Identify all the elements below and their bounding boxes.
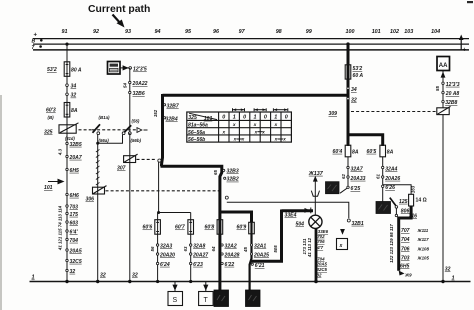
svg-text:(B1a): (B1a)	[99, 115, 111, 120]
svg-text:Current path: Current path	[88, 4, 150, 15]
svg-text:20A5: 20A5	[69, 248, 82, 254]
svg-text:704: 704	[70, 238, 79, 244]
svg-text:32: 32	[445, 267, 451, 273]
svg-text:32B6: 32B6	[133, 91, 145, 97]
svg-text:(56b): (56b)	[131, 138, 142, 143]
end arrow X9	[399, 271, 412, 278]
svg-text:93: 93	[125, 29, 131, 35]
relay contact 306	[86, 186, 107, 203]
svg-text:20A7: 20A7	[69, 155, 83, 161]
svg-text:54: 54	[122, 83, 127, 88]
svg-text:Ж9: Ж9	[404, 273, 412, 278]
current path numbers row	[62, 29, 441, 35]
node 706 X108	[401, 246, 429, 252]
svg-text:60'5: 60'5	[367, 149, 377, 155]
wire below 60'4	[340, 157, 348, 193]
svg-text:12'3'3: 12'3'3	[446, 82, 460, 88]
svg-text:x: x	[233, 138, 237, 143]
svg-text:62: 62	[341, 174, 346, 179]
ground junction switch wire	[128, 280, 131, 283]
svg-text:20A25: 20A25	[253, 252, 269, 258]
svg-text:S: S	[173, 297, 178, 304]
switch blade left	[93, 124, 101, 133]
node 32 lamp wire	[317, 272, 322, 277]
wire AA column to ground	[442, 115, 444, 282]
fuse 60'7	[175, 220, 194, 235]
node 20A8	[442, 91, 460, 97]
node 704	[317, 256, 325, 261]
node 702	[317, 234, 325, 239]
connector circle node at relay output	[158, 159, 161, 162]
svg-text:60 A: 60 A	[353, 73, 364, 79]
node 707 X111	[401, 228, 429, 234]
bus bar 15 (middle line)	[33, 43, 469, 45]
svg-text:706: 706	[401, 246, 410, 252]
node 32B8	[442, 100, 458, 106]
svg-text:41 121 115 74 113 114: 41 121 115 74 113 114	[58, 205, 63, 251]
relay contact 325	[44, 123, 79, 141]
X contact box	[337, 239, 348, 250]
svg-text:(56): (56)	[132, 119, 140, 124]
left page-edge smudge	[0, 95, 2, 310]
node 32C5	[66, 259, 82, 265]
svg-text:34: 34	[71, 84, 77, 90]
ground bus line 1	[30, 281, 471, 283]
svg-text:603: 603	[70, 220, 79, 226]
svg-text:6H6: 6H6	[70, 193, 80, 199]
svg-text:20A27: 20A27	[192, 252, 209, 258]
svg-text:32: 32	[317, 272, 322, 277]
svg-text:32B4: 32B4	[166, 117, 178, 123]
svg-text:703: 703	[401, 256, 410, 262]
node 4'7	[316, 245, 323, 250]
branch wire to resistor	[383, 185, 411, 195]
svg-text:32: 32	[71, 93, 77, 99]
tick 32B3	[223, 168, 239, 174]
svg-text:6'4': 6'4'	[70, 229, 79, 235]
svg-text:53'2: 53'2	[353, 66, 363, 72]
bus bar X (lower line)	[33, 49, 469, 51]
svg-text:704: 704	[401, 237, 410, 243]
svg-text:20A26: 20A26	[384, 176, 400, 182]
svg-text:1: 1	[233, 115, 236, 121]
svg-text:6H5: 6H5	[400, 263, 410, 269]
switch 125	[390, 198, 408, 209]
svg-text:102: 102	[390, 29, 399, 35]
thick wire to lamp from branch	[282, 209, 314, 212]
link line 56-56a	[258, 131, 263, 133]
junction split to branches 1-2	[158, 212, 191, 214]
svg-text:60'4: 60'4	[333, 149, 343, 155]
node 175	[66, 212, 78, 218]
svg-text:175: 175	[70, 212, 79, 218]
svg-text:34: 34	[351, 87, 357, 93]
link wire 56a to 56b contact	[98, 135, 123, 143]
svg-text:B: B	[32, 39, 36, 45]
switch contact node 56b-left	[122, 132, 125, 135]
node 32	[66, 269, 76, 275]
svg-text:63: 63	[183, 246, 188, 251]
svg-text:32: 32	[351, 97, 357, 103]
svg-text:60'8: 60'8	[205, 225, 215, 231]
svg-text:Ж117: Ж117	[417, 237, 430, 242]
svg-text:32B5: 32B5	[70, 142, 82, 148]
ground box dark 2	[246, 290, 261, 307]
table x marks row 81a-56a	[232, 123, 278, 128]
long thin wire to lamp and 32B1	[227, 202, 349, 218]
wire lamp vertical	[314, 182, 316, 216]
svg-text:32A3: 32A3	[160, 243, 172, 249]
svg-text:(56a): (56a)	[99, 138, 110, 143]
svg-text:32: 32	[132, 273, 138, 279]
node 20A27	[190, 252, 210, 258]
svg-text:32A2: 32A2	[225, 243, 237, 249]
svg-text:AA: AA	[439, 63, 448, 69]
fuse S 53'2 60A right	[345, 65, 363, 79]
svg-text:x: x	[253, 123, 257, 128]
branch2 wire	[190, 213, 192, 282]
svg-text:53'2: 53'2	[47, 67, 57, 73]
svg-text:325: 325	[188, 115, 197, 121]
tick 32B4	[164, 117, 178, 123]
svg-text:125: 125	[399, 199, 408, 205]
node 6H5	[66, 168, 79, 174]
svg-text:56: 56	[150, 246, 155, 251]
svg-text:60'9: 60'9	[237, 225, 247, 231]
control unit AA box	[437, 57, 450, 71]
svg-text:99: 99	[306, 29, 312, 35]
wire left column from bus 15 down	[66, 44, 68, 281]
svg-text:92: 92	[93, 29, 99, 35]
svg-text:101: 101	[204, 116, 213, 122]
fuse 60'9	[237, 222, 255, 234]
arrow up to X137	[313, 176, 318, 182]
table header digits	[222, 115, 287, 121]
svg-text:8A: 8A	[71, 108, 78, 114]
thick wire resistor down and left to 707 column	[399, 206, 411, 271]
node 20A20	[156, 252, 175, 258]
svg-text:4'7: 4'7	[316, 245, 323, 250]
branch1 wire	[157, 213, 159, 282]
svg-text:64: 64	[211, 246, 216, 251]
ground connection T box	[199, 282, 214, 306]
node 32A3	[156, 243, 172, 249]
svg-text:20A33: 20A33	[350, 176, 366, 182]
svg-text:706: 706	[317, 239, 325, 244]
wire switch column down	[129, 133, 131, 282]
svg-text:1: 1	[452, 276, 455, 282]
relay contact 307	[117, 154, 138, 171]
node 6'24	[156, 262, 169, 268]
thick top link branch3 to branch4	[220, 212, 252, 222]
svg-text:20A5: 20A5	[316, 262, 328, 267]
connector circle at thin wire start	[225, 196, 228, 199]
svg-text:(B): (B)	[48, 115, 55, 120]
arrow on K wire	[123, 65, 129, 70]
label D+	[305, 208, 310, 213]
node 33E6	[318, 229, 329, 234]
node 32A2	[221, 243, 237, 249]
node 20A25	[250, 252, 269, 258]
switch position table	[187, 112, 292, 143]
svg-text:707: 707	[401, 228, 411, 234]
control unit K box	[108, 62, 121, 75]
svg-text:32A7: 32A7	[351, 166, 364, 172]
svg-text:60'3: 60'3	[46, 108, 56, 114]
node 12'3'3	[442, 82, 460, 88]
svg-text:309: 309	[329, 111, 338, 117]
warning lamp 504	[309, 215, 322, 228]
svg-text:Ж111: Ж111	[417, 228, 429, 233]
ground junction 56a wire	[96, 280, 99, 283]
svg-text:60'7: 60'7	[175, 225, 186, 231]
node 32 right	[347, 97, 357, 103]
svg-text:307: 307	[117, 166, 127, 172]
svg-text:505: 505	[273, 245, 278, 253]
svg-text:504: 504	[296, 222, 305, 228]
svg-text:20A20: 20A20	[159, 252, 175, 258]
bus left end terminal glyphs	[32, 39, 43, 52]
node 704	[66, 238, 78, 244]
svg-text:6'21: 6'21	[255, 263, 265, 269]
svg-text:703: 703	[70, 204, 79, 210]
wire down from K node	[129, 68, 131, 132]
svg-text:32B8: 32B8	[445, 100, 457, 106]
link lines 56-56b	[237, 138, 243, 140]
thick lamp ground wire	[315, 228, 318, 281]
ground junction left wire	[65, 280, 68, 283]
dashed actuation 309	[351, 111, 436, 113]
node 6'23	[190, 262, 203, 268]
svg-text:32B1: 32B1	[352, 221, 364, 227]
svg-text:122 123 129 95 117: 122 123 129 95 117	[389, 224, 394, 263]
svg-text:T: T	[204, 297, 209, 304]
component box J16 dark	[376, 202, 391, 214]
svg-text:x: x	[261, 130, 265, 135]
node 32A8	[190, 243, 206, 249]
switch dashed gang line	[92, 129, 136, 131]
relay winding 309 box	[437, 106, 451, 114]
node 704 X117	[401, 237, 429, 243]
thin feeder wire down to fuse branches	[158, 162, 160, 212]
svg-text:6'25: 6'25	[351, 186, 361, 192]
node 6'4	[66, 229, 79, 235]
thick link lamp feed to branch4	[251, 210, 282, 262]
ground junction AA column	[441, 280, 444, 283]
svg-text:0: 0	[264, 115, 267, 121]
wire AA down	[442, 71, 444, 108]
svg-text:95: 95	[185, 29, 192, 35]
junction dot on 56a wire	[96, 142, 99, 145]
connector cup on lamp wire	[311, 191, 319, 197]
svg-text:x: x	[241, 138, 245, 143]
dimension arrows above table col6	[273, 108, 287, 111]
connector node 32B1	[347, 219, 364, 227]
svg-text:103: 103	[404, 29, 413, 35]
svg-text:8A: 8A	[352, 149, 359, 155]
svg-text:80 A: 80 A	[71, 68, 82, 74]
svg-text:1: 1	[254, 115, 257, 121]
node 703 X105	[401, 256, 429, 262]
table x marks row 56-56a	[221, 130, 265, 135]
fuse 60'5 8A	[367, 145, 394, 157]
svg-text:x: x	[339, 243, 343, 249]
svg-text:0: 0	[243, 115, 246, 121]
svg-text:45: 45	[243, 247, 248, 253]
svg-text:65: 65	[213, 170, 218, 175]
node 20A22	[129, 81, 148, 87]
node 6'25	[347, 186, 361, 192]
node 20A7	[66, 155, 83, 161]
svg-text:100: 100	[346, 29, 355, 35]
node 32A7	[347, 166, 364, 172]
thick main feed: top horizontal from corner to right riser	[163, 94, 349, 97]
svg-text:97: 97	[239, 29, 246, 35]
svg-text:32A4: 32A4	[385, 166, 397, 172]
svg-text:6H5: 6H5	[70, 168, 80, 174]
svg-text:91: 91	[62, 29, 68, 35]
svg-text:20 A8: 20 A8	[445, 91, 460, 97]
bus right end arrow and plus	[459, 35, 467, 54]
tick 32B2	[224, 177, 239, 183]
svg-text:32: 32	[70, 269, 76, 275]
connector arrow 101	[44, 179, 65, 191]
thick lower rail to branch3	[161, 166, 222, 290]
switch contact node 56b-right	[128, 132, 131, 135]
svg-text:12'3'5: 12'3'5	[133, 67, 147, 73]
node 20A26	[382, 176, 401, 182]
svg-text:6'26: 6'26	[385, 185, 395, 191]
fuse 60'8 on thick branch3	[205, 220, 223, 235]
svg-text:6'24: 6'24	[160, 262, 170, 268]
svg-text:325: 325	[44, 130, 53, 136]
svg-text:81a–56a: 81a–56a	[188, 123, 208, 129]
svg-text:94: 94	[155, 29, 161, 35]
node 20A33	[347, 176, 366, 182]
svg-text:Ж105: Ж105	[417, 256, 430, 261]
node 6'21	[251, 263, 264, 269]
hatch ticks on 56a wire	[96, 149, 100, 185]
node 32A1	[250, 243, 266, 249]
bus bar 30 (top line)	[33, 38, 469, 40]
thick split to 60'5	[348, 135, 383, 146]
svg-text:6'23: 6'23	[193, 262, 203, 268]
svg-text:32B3: 32B3	[227, 168, 239, 174]
svg-text:0: 0	[285, 115, 288, 121]
node 603	[66, 220, 78, 226]
node 20A28	[221, 252, 240, 258]
fuse 60'4 8A	[333, 145, 359, 157]
svg-text:8A: 8A	[387, 149, 394, 155]
dimension arrows above table col4	[254, 108, 266, 111]
arrow up into AA	[441, 72, 446, 78]
svg-text:Ж108: Ж108	[417, 246, 430, 251]
junction on bus	[65, 43, 68, 46]
svg-text:x: x	[274, 138, 278, 143]
svg-text:32C5: 32C5	[70, 259, 82, 265]
svg-text:x: x	[232, 123, 236, 128]
svg-text:56–56a: 56–56a	[188, 130, 205, 136]
svg-text:0: 0	[222, 115, 225, 121]
fuse 60'3 8A	[46, 103, 78, 118]
svg-text:101: 101	[44, 185, 53, 191]
node 12'3'5	[129, 67, 147, 73]
ground connection S box	[168, 282, 183, 306]
node 20A5	[316, 262, 328, 267]
resistor 14 ohm	[409, 194, 427, 206]
svg-text:32C5: 32C5	[317, 267, 328, 272]
node 20A5	[66, 248, 82, 254]
svg-text:x: x	[254, 130, 258, 135]
dashed actuation line from 325	[79, 129, 93, 131]
svg-text:56–56b: 56–56b	[188, 137, 205, 143]
svg-text:96: 96	[213, 29, 220, 35]
switch link down	[395, 208, 397, 214]
svg-text:55: 55	[435, 86, 440, 91]
plus mark left end	[34, 33, 38, 39]
svg-text:163: 163	[411, 185, 416, 193]
dashed actuation 306 to thick wire	[106, 190, 219, 192]
thick right riser from bus	[347, 44, 350, 146]
tick 32B7	[164, 104, 180, 110]
title Current path	[88, 4, 150, 28]
node 34	[66, 84, 77, 90]
svg-text:Ж137: Ж137	[308, 171, 324, 177]
svg-text:61: 61	[376, 174, 381, 179]
wire below 60'5	[382, 157, 384, 202]
wire 56a column down	[97, 135, 99, 282]
svg-text:20A28: 20A28	[224, 252, 240, 258]
thick main feed: left riser down with jog to lower rail	[162, 94, 163, 166]
dimension arrows above table col2	[233, 108, 245, 111]
node 32	[66, 93, 77, 99]
svg-text:32: 32	[100, 273, 106, 279]
branch2 ground junction	[189, 280, 192, 283]
node 706	[317, 239, 325, 244]
lamp wire ground junction	[314, 280, 318, 284]
branch4 thick wire through fuse	[250, 221, 252, 291]
svg-text:101: 101	[372, 29, 381, 35]
node 703	[66, 204, 78, 210]
svg-text:60'6: 60'6	[143, 225, 153, 231]
wire K box to node	[120, 67, 130, 69]
table x marks row 56-56b	[233, 138, 287, 143]
dashed actuation 307 to circle node	[137, 158, 157, 160]
arrow down to X contact	[340, 229, 345, 235]
svg-text:6'22: 6'22	[225, 262, 235, 268]
node 6H5 right	[400, 263, 410, 269]
svg-text:4.3: 4.3	[58, 148, 63, 156]
svg-text:x: x	[273, 123, 277, 128]
node 6H6	[66, 193, 79, 199]
svg-text:x: x	[221, 130, 225, 135]
svg-text:41 113 12: 41 113 12	[307, 237, 312, 258]
svg-text:+: +	[463, 48, 467, 54]
svg-text:98: 98	[276, 29, 282, 35]
component box J6 dark	[326, 182, 340, 194]
switch pivot node left	[97, 132, 100, 135]
ground box dark 1	[214, 290, 229, 307]
switch blade right	[124, 125, 132, 133]
node 6'22	[221, 262, 234, 268]
mechanical arrow	[137, 128, 148, 133]
svg-text:306: 306	[86, 197, 95, 203]
svg-text:(31d): (31d)	[65, 136, 75, 141]
svg-text:104: 104	[431, 29, 440, 35]
svg-text:1: 1	[274, 115, 277, 121]
node 6'26	[382, 185, 396, 191]
svg-text:32B7: 32B7	[167, 104, 180, 110]
